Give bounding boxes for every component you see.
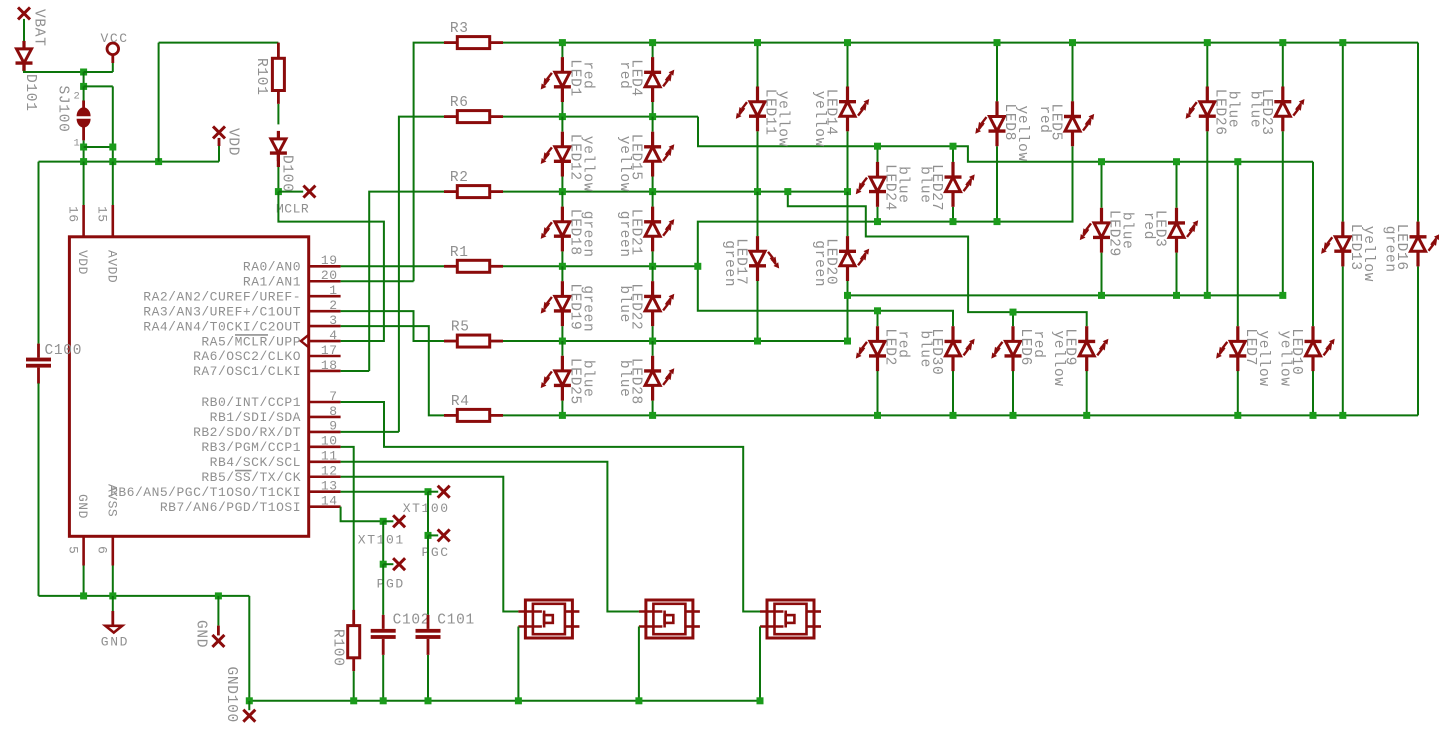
wire (1072, 43, 1074, 102)
svg-text:LED21: LED21 (628, 209, 644, 256)
wire (877, 207, 879, 222)
wire R100 to GND (353, 671, 355, 701)
resistor R100 (348, 610, 360, 671)
wire (847, 281, 849, 341)
junction (109, 158, 116, 165)
wire (1176, 253, 1178, 296)
svg-text:yellow: yellow (1255, 330, 1271, 386)
wire (1101, 162, 1103, 208)
junction XT100 (425, 488, 432, 495)
wire (757, 192, 759, 237)
svg-text:2: 2 (73, 91, 81, 103)
wire SJ pin1 right (84, 146, 113, 148)
pin 4 stub (309, 340, 341, 343)
overbar SS (235, 470, 252, 472)
pin 12 stub (309, 475, 341, 478)
svg-text:GND: GND (193, 620, 209, 648)
svg-text:LED15: LED15 (628, 134, 644, 181)
wire (561, 341, 563, 356)
svg-text:LED16: LED16 (1393, 224, 1409, 271)
wire R1 extension lower (698, 266, 953, 326)
wire R2 extension (788, 192, 1087, 327)
wire R3 rail (503, 42, 1418, 44)
LED LED9 (1078, 326, 1108, 371)
wire VCC top rail (159, 42, 279, 44)
svg-text:LED9: LED9 (1062, 328, 1078, 366)
resistor R1 (444, 260, 503, 272)
LED LED1 (541, 57, 571, 102)
resistor R6 (444, 111, 503, 123)
svg-text:RB5/SS/TX/CK: RB5/SS/TX/CK (201, 470, 301, 485)
junction (649, 188, 656, 195)
wire to PGC flag (428, 534, 438, 536)
svg-text:RA2/AN2/CUREF/UREF-: RA2/AN2/CUREF/UREF- (143, 289, 301, 304)
wire R4 rail (503, 414, 1418, 416)
wire (1342, 43, 1344, 222)
switch S3 (760, 600, 821, 638)
ground symbol GND (105, 626, 122, 633)
wire (561, 192, 563, 207)
diode D100 (270, 131, 287, 161)
pin 15 (AVDD) (112, 205, 115, 237)
svg-text:RB7/AN6/PGD/T1OSI: RB7/AN6/PGD/T1OSI (160, 500, 301, 515)
junction (1069, 39, 1076, 46)
wire VDD stub (218, 141, 220, 162)
junction (950, 412, 957, 419)
LED LED6 (991, 326, 1021, 371)
svg-text:SJ100: SJ100 (55, 86, 71, 133)
junction (1098, 292, 1105, 299)
svg-text:VCC: VCC (101, 31, 129, 46)
junction (844, 338, 851, 345)
junction (874, 218, 881, 225)
wire down to VDD rail (112, 86, 114, 161)
wire (561, 266, 563, 281)
wire (952, 146, 954, 162)
junction (1173, 158, 1180, 165)
junction PGD (380, 561, 387, 568)
wire (1342, 266, 1344, 415)
svg-text:LED14: LED14 (823, 89, 839, 136)
svg-text:1: 1 (73, 138, 81, 150)
svg-text:VDD: VDD (75, 250, 90, 275)
svg-text:XT101: XT101 (358, 533, 405, 548)
wire pin9 (341, 431, 399, 433)
svg-text:R4: R4 (451, 394, 470, 410)
wire pin10 RB3 to R100 (341, 447, 354, 610)
svg-text:RB1/SDI/SDA: RB1/SDI/SDA (210, 410, 301, 425)
junction PGC (425, 532, 432, 539)
LED LED17 (749, 236, 779, 281)
LED LED18 (541, 207, 571, 252)
junction (155, 158, 162, 165)
wire (561, 43, 563, 58)
junction (1339, 412, 1346, 419)
svg-text:AVDD: AVDD (104, 250, 119, 283)
pin 14 stub (309, 505, 341, 508)
svg-text:LED22: LED22 (628, 283, 644, 330)
svg-text:7: 7 (329, 389, 337, 404)
wire (1012, 371, 1014, 415)
wire pin16 (83, 162, 85, 205)
capacitor C100 (26, 344, 51, 384)
svg-text:PGC: PGC (422, 545, 450, 560)
wire (1101, 253, 1103, 296)
wire (1086, 371, 1088, 415)
svg-text:VBAT: VBAT (31, 9, 47, 47)
svg-text:LED28: LED28 (628, 358, 644, 405)
resistor R2 (444, 186, 503, 198)
wire R2 feed from pin18 (369, 192, 444, 371)
LED LED21 (644, 207, 674, 252)
wire pin14 RB7 (341, 507, 384, 522)
wire (1206, 43, 1208, 87)
wire R2 rail (503, 191, 847, 193)
wire C102 to GND (382, 655, 384, 701)
wire pin6 (112, 566, 114, 596)
LED LED2 (856, 326, 886, 371)
svg-text:RB6/AN5/PGC/T1OSO/T1CKI: RB6/AN5/PGC/T1OSO/T1CKI (110, 485, 301, 500)
pin 10 stub (309, 446, 341, 449)
junction (649, 338, 656, 345)
svg-text:R3: R3 (450, 21, 469, 37)
svg-text:RA7/OSC1/CLKI: RA7/OSC1/CLKI (193, 364, 301, 379)
svg-text:VDD: VDD (225, 128, 241, 156)
net flag PGC (438, 529, 450, 541)
LED LED5 (1064, 101, 1094, 146)
wire D101 to VCC node (24, 71, 84, 73)
svg-text:XT100: XT100 (403, 501, 450, 516)
junction (1339, 39, 1346, 46)
wire pin5 (83, 566, 85, 596)
svg-text:1: 1 (329, 283, 337, 298)
wire R4 feed from pin3 (341, 326, 444, 415)
svg-text:yellow: yellow (579, 136, 595, 192)
svg-text:LED10: LED10 (1288, 328, 1304, 375)
wire (561, 177, 563, 192)
svg-text:blue: blue (579, 360, 595, 398)
wire (757, 281, 759, 341)
junction (874, 143, 881, 150)
wire (382, 521, 384, 564)
junction (844, 188, 851, 195)
junction (754, 39, 761, 46)
wire (877, 146, 879, 162)
pin 5 (GND) (82, 536, 85, 565)
junction (754, 338, 761, 345)
junction (649, 39, 656, 46)
wire (1312, 371, 1314, 415)
LED LED11 (736, 87, 766, 132)
wire (652, 341, 654, 356)
LED LED20 (839, 236, 869, 281)
svg-text:R100: R100 (330, 629, 346, 667)
svg-text:RB2/SDO/RX/DT: RB2/SDO/RX/DT (193, 425, 301, 440)
wire (652, 43, 654, 58)
wire R6 feed from pin9 (399, 117, 444, 432)
junction VCC node (80, 69, 87, 76)
wire R1 extension upper (698, 146, 1073, 266)
junction GND100 (246, 697, 253, 704)
junction (844, 39, 851, 46)
wire (952, 371, 954, 415)
pin 9 stub (309, 431, 341, 434)
junction (1173, 292, 1180, 299)
svg-text:9: 9 (329, 419, 337, 434)
LED LED22 (644, 281, 674, 326)
svg-text:red: red (1030, 330, 1046, 358)
svg-text:10: 10 (321, 434, 338, 449)
wire (996, 146, 998, 221)
wire (1417, 266, 1419, 415)
wire VBAT to D101 (23, 19, 25, 42)
junction (109, 144, 116, 151)
svg-text:blue: blue (1224, 91, 1240, 129)
wire (1282, 131, 1284, 295)
overbar MCLR (235, 334, 268, 336)
svg-text:green: green (579, 211, 595, 258)
junction (649, 412, 656, 419)
wire to SJ100 (83, 72, 85, 86)
wire (1176, 162, 1178, 208)
net flag XT100 (438, 486, 450, 498)
wire pin11 RB4 to switch S2 (341, 462, 639, 612)
wire (652, 177, 654, 192)
wire VCC riser (158, 43, 160, 162)
LED LED14 (839, 87, 869, 132)
svg-text:RA0/AN0: RA0/AN0 (243, 260, 301, 275)
wire S3 to GND (759, 627, 761, 701)
solder jumper SJ100 (77, 101, 91, 141)
wire (996, 43, 998, 102)
wire pin20 (341, 280, 414, 282)
pin 18 stub (309, 370, 341, 373)
capacitor C102 (371, 615, 396, 655)
wire (561, 117, 563, 132)
svg-text:20: 20 (321, 268, 338, 283)
pin 20 stub (309, 280, 341, 283)
svg-text:blue: blue (1119, 212, 1135, 250)
junction (80, 592, 87, 599)
junction (757, 697, 764, 704)
wire to XT100 flag (428, 491, 438, 493)
svg-text:C102: C102 (393, 613, 431, 629)
svg-text:LED4: LED4 (628, 59, 644, 97)
wire R5 feed from pin2 (341, 311, 444, 341)
net flag GND (212, 635, 224, 647)
wire (1237, 162, 1239, 327)
svg-text:yellow: yellow (1014, 106, 1030, 162)
wire MCLR to pin4 (278, 192, 384, 341)
junction (874, 307, 881, 314)
svg-text:R5: R5 (451, 320, 470, 336)
net flag VBAT (18, 7, 30, 19)
wire (652, 251, 654, 266)
IC PIC microcontroller body (69, 237, 308, 537)
junction (1234, 412, 1241, 419)
wire to C102 (382, 564, 384, 615)
wire (561, 102, 563, 117)
wire R3 feed from pin20 (414, 43, 444, 282)
net flag XT101 (393, 515, 405, 527)
wire R5 extension rail (848, 294, 1283, 296)
svg-text:RA1/AN1: RA1/AN1 (243, 274, 301, 289)
diode D101 (16, 41, 33, 71)
wire (1417, 43, 1419, 222)
junction (559, 338, 566, 345)
pin 6 (AVSS) (112, 536, 115, 565)
svg-text:LED17: LED17 (733, 238, 749, 285)
pin 16 (VDD) (82, 205, 85, 237)
wire pin7 RB0 to switch S3 (341, 402, 760, 612)
LED LED28 (644, 356, 674, 401)
wire GND rail (39, 595, 250, 597)
wire S2 to GND (638, 627, 640, 701)
junction (950, 218, 957, 225)
wire to C101 (427, 535, 429, 615)
wire (952, 207, 954, 222)
pin 17 stub (309, 355, 341, 358)
svg-text:C101: C101 (437, 613, 475, 629)
net flag VDD (213, 126, 225, 138)
LED LED23 (1274, 87, 1304, 132)
svg-text:RA6/OSC2/CLKO: RA6/OSC2/CLKO (193, 349, 301, 364)
svg-text:R101: R101 (253, 58, 269, 96)
wire (847, 192, 849, 237)
pin 2 stub (309, 310, 341, 313)
LED LED24 (856, 162, 886, 207)
wire to MCLR flag (278, 191, 303, 193)
wire R6 rail (503, 116, 698, 118)
junction (515, 697, 522, 704)
LED LED8 (975, 101, 1005, 146)
wire R1 rail (503, 265, 698, 267)
wire (1237, 371, 1239, 415)
svg-text:LED5: LED5 (1048, 104, 1064, 142)
svg-text:RA4/AN4/T0CKI/C2OUT: RA4/AN4/T0CKI/C2OUT (143, 319, 301, 334)
svg-text:LED30: LED30 (928, 328, 944, 375)
wire VCC node (84, 71, 113, 73)
wire (877, 371, 879, 415)
RA5 pin function marker (301, 335, 309, 348)
junction R2 ext (784, 188, 791, 195)
wire (652, 192, 654, 207)
svg-text:R1: R1 (450, 245, 469, 261)
svg-text:19: 19 (321, 253, 338, 268)
svg-text:D101: D101 (22, 74, 38, 112)
svg-text:15: 15 (95, 206, 110, 223)
wire (561, 251, 563, 266)
wire to GND flag (217, 596, 219, 626)
junction (994, 39, 1001, 46)
resistor R5 (444, 335, 503, 347)
wire R5 rail (503, 340, 848, 342)
pin 1 stub (309, 295, 341, 298)
svg-text:16: 16 (66, 206, 81, 223)
svg-text:GND: GND (75, 494, 90, 519)
wire bottom GND rail (249, 596, 760, 701)
wire pin18 (341, 370, 370, 372)
junction (350, 697, 357, 704)
junction (994, 218, 1001, 225)
svg-text:red: red (579, 61, 595, 89)
wire (1012, 312, 1014, 326)
wire (847, 131, 849, 191)
svg-text:blue: blue (895, 166, 911, 204)
junction (1083, 412, 1090, 419)
svg-text:red: red (895, 330, 911, 358)
svg-text:RA5/MCLR/UPP: RA5/MCLR/UPP (201, 334, 301, 349)
wire pin12 RB5 to switch S1 (341, 477, 519, 612)
net flag PGD (393, 558, 405, 570)
junction SJ100 pin2 node (80, 83, 87, 90)
junction SJ pin1 (80, 144, 87, 151)
LED LED4 (644, 57, 674, 102)
switch S1 (518, 600, 579, 638)
junction (1204, 39, 1211, 46)
wire to XT101 flag (383, 520, 393, 522)
LED LED25 (541, 356, 571, 401)
wire (652, 102, 654, 117)
junction (1098, 158, 1105, 165)
wire SJ pin2 (83, 86, 85, 100)
wire (757, 43, 759, 87)
wire C100 to GND rail (38, 383, 40, 596)
junction (1010, 309, 1017, 316)
wire VDD rail (39, 161, 220, 163)
wire to GND100 flag (248, 701, 250, 710)
junction (1279, 292, 1286, 299)
wire R6 extension rail (698, 117, 1313, 162)
svg-text:R6: R6 (450, 95, 469, 111)
LED LED30 (945, 326, 975, 371)
junction MCLR node (275, 188, 282, 195)
wire VCC stub (112, 63, 114, 72)
wire (1282, 43, 1284, 87)
wire D100 cathode (277, 167, 279, 192)
junction R5 ext (844, 292, 851, 299)
svg-text:MCLR: MCLR (276, 202, 309, 217)
wire pin15 (112, 162, 114, 205)
svg-text:6: 6 (95, 546, 110, 554)
junction (559, 39, 566, 46)
svg-text:GND: GND (101, 634, 129, 649)
junction (649, 263, 656, 270)
wire (427, 492, 429, 536)
wire to PGD flag (383, 563, 393, 565)
pin 8 stub (309, 416, 341, 419)
resistor R4 (444, 409, 503, 421)
wire branch right (84, 85, 113, 87)
svg-text:PGD: PGD (377, 577, 405, 592)
LED LED16 (1410, 222, 1439, 267)
junction (754, 188, 761, 195)
svg-text:RA3/AN3/UREF+/C1OUT: RA3/AN3/UREF+/C1OUT (143, 304, 301, 319)
wire SJ pin1 down (83, 140, 85, 161)
LED LED13 (1321, 222, 1351, 267)
junction (559, 188, 566, 195)
svg-text:C100: C100 (45, 343, 83, 359)
junction (425, 697, 432, 704)
pin 19 stub (309, 265, 341, 268)
junction (950, 143, 957, 150)
junction (1010, 412, 1017, 419)
svg-text:LED27: LED27 (928, 164, 944, 211)
LED LED15 (644, 132, 674, 177)
switch S2 (639, 600, 700, 638)
junction (649, 113, 656, 120)
wire (757, 131, 759, 191)
